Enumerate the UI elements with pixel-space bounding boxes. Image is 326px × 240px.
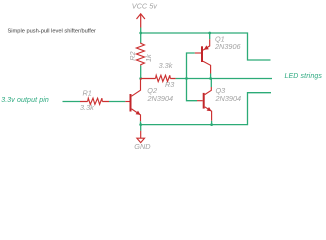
wire R1 to Q2 base — [109, 101, 125, 103]
power symbol VCC up arrow — [137, 14, 145, 28]
resistor R3 zigzag — [156, 75, 171, 81]
transistor Q1 2N3906 PNP — [195, 39, 211, 73]
svg-text:3.3v output pin: 3.3v output pin — [1, 97, 49, 104]
svg-text:2N3904: 2N3904 — [147, 94, 174, 103]
wire top rail — [141, 33, 271, 60]
wire base tie Q1-Q3 — [187, 53, 198, 101]
svg-text:R3: R3 — [165, 80, 174, 89]
ground symbol — [137, 131, 145, 143]
wire Q3 collector to output node — [210, 79, 212, 88]
wire R3 to bases node and output node — [176, 78, 272, 80]
wire Q3 emitter to bottom rail — [211, 121, 213, 125]
resistor R2 — [136, 43, 144, 66]
node mid R2/R3/Q2 — [139, 77, 142, 80]
svg-text:1k: 1k — [144, 54, 153, 62]
wire 3.3v output pin to R1 — [63, 101, 81, 103]
node top rail / R2 — [139, 32, 142, 35]
svg-text:R1: R1 — [83, 88, 92, 97]
svg-text:R2: R2 — [128, 51, 137, 60]
node Q3 emitter / bottom rail — [210, 123, 213, 126]
node bases junction — [185, 77, 188, 80]
wire R2 to mid node — [140, 66, 142, 79]
resistor R1 zigzag — [88, 98, 103, 104]
svg-text:GND: GND — [134, 142, 151, 151]
svg-text:2N3904: 2N3904 — [215, 94, 242, 103]
resistor R1 leads — [80, 101, 109, 103]
node collectors junction — [209, 77, 212, 80]
wire GND node down — [140, 125, 142, 131]
svg-text:3.3k: 3.3k — [80, 103, 94, 112]
transistor Q2 2N3904 NPN — [125, 79, 140, 122]
resistor R3 leads — [141, 78, 176, 80]
wire VCC to top rail — [140, 28, 142, 34]
wire Q2 emitter to bottom rail — [140, 121, 142, 124]
wire Q1 collector to output node — [210, 74, 212, 79]
wire bottom rail — [141, 93, 271, 125]
transistor Q3 2N3904 NPN — [197, 87, 212, 121]
wire top rail to R2 — [140, 33, 142, 43]
svg-text:Simple push-pull level shifter: Simple push-pull level shifter/buffer — [8, 29, 97, 35]
node top rail / Q1 emitter — [208, 32, 211, 35]
svg-text:LED strings: LED strings — [285, 73, 323, 80]
svg-text:2N3906: 2N3906 — [214, 42, 242, 51]
svg-text:VCC 5v: VCC 5v — [132, 2, 157, 11]
wire Q1 emitter to top rail — [209, 33, 211, 39]
node bottom rail / GND — [139, 123, 142, 126]
svg-text:3.3k: 3.3k — [159, 61, 173, 70]
